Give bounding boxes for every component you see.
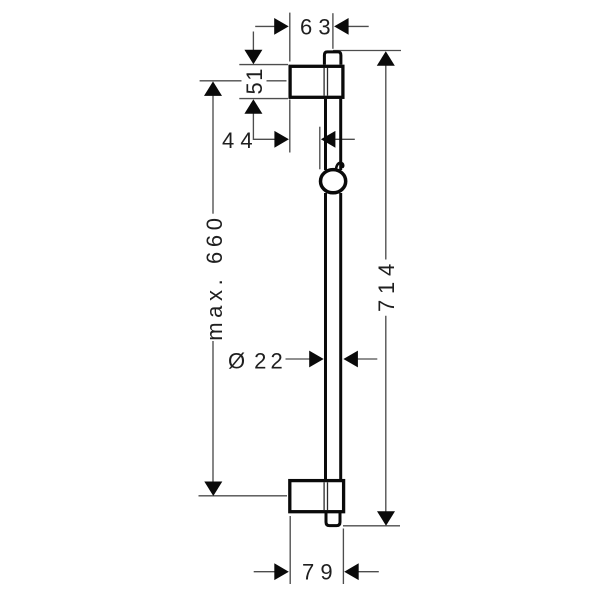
dia22 left arrow (points right) <box>309 351 324 368</box>
top pin/cap of rod <box>324 52 341 65</box>
thin extension / dimension lines <box>199 13 402 584</box>
714 dim: lower line segment <box>385 316 387 513</box>
slider ring <box>321 170 346 193</box>
max 660 dim: upper line segment <box>212 96 214 214</box>
slider release tab <box>336 163 343 170</box>
44 right arrow (points left) <box>321 131 336 148</box>
svg-text:max. 660: max. 660 <box>202 213 227 340</box>
51 dim: top extension line <box>239 64 288 66</box>
max 660 top arrow (points up) <box>204 81 222 96</box>
63 dim: right extension line <box>332 13 334 49</box>
max 660 dim: bottom extension line <box>199 495 288 497</box>
max 660 dim: lower line segment <box>212 341 214 483</box>
44 left arrow (points right) <box>274 131 289 148</box>
63 right arrow (points left) <box>334 18 349 35</box>
51 dim: bottom extension line <box>239 98 288 100</box>
44 dim: left extension line (below bracket) <box>289 100 291 153</box>
714 top arrow (points up) <box>377 51 395 65</box>
rod edge lines inside bottom bracket <box>323 482 325 510</box>
product: shower bar <box>290 52 346 526</box>
79 dim: left extension line <box>289 516 291 584</box>
bottom pin of rod <box>326 512 340 526</box>
63 dim: right tail <box>347 25 369 27</box>
rod edge lines inside top bracket <box>323 68 325 96</box>
dia 22 dim: left tail <box>286 358 312 360</box>
svg-text:4 4: 4 4 <box>222 128 253 153</box>
79 dim: right extension line <box>342 529 344 585</box>
51 top arrow (points down) <box>244 50 262 65</box>
bottom wall bracket <box>290 481 344 512</box>
79 dim: left tail <box>254 571 276 573</box>
714 dim: bottom extension line <box>343 525 400 527</box>
svg-text:6 3: 6 3 <box>300 14 331 39</box>
dimension texts <box>202 14 399 584</box>
51 dim: line above top arrow <box>252 32 254 52</box>
dia22 right arrow (points left) <box>343 351 358 368</box>
svg-text:7 9: 7 9 <box>302 560 333 585</box>
max 660 dim: top extension line (split by 51 text) <box>200 80 242 82</box>
svg-text:22: 22 <box>254 348 287 373</box>
44 dim: right extension line <box>319 127 321 170</box>
63 dim: left extension line <box>289 13 291 62</box>
svg-text:714: 714 <box>374 258 399 312</box>
714 bottom arrow (points down) <box>377 511 395 526</box>
63 left arrow (points right) <box>274 18 289 35</box>
51/44 dim: line below bottom arrow down to 44 level <box>253 113 276 139</box>
714 dim: upper line segment <box>385 65 387 260</box>
51 bottom arrow (points up) <box>244 99 262 114</box>
79 right arrow (points left) <box>344 563 359 580</box>
max 660 bottom arrow (points down) <box>204 482 222 497</box>
arrowheads <box>204 18 395 580</box>
44 dim: right segment with tail over rod <box>334 138 355 140</box>
svg-text:51: 51 <box>242 67 267 94</box>
79 left arrow (points right) <box>274 563 289 580</box>
rod lower segment (slider to bottom bracket) <box>324 193 327 481</box>
top wall bracket <box>290 66 343 97</box>
svg-text:Ø: Ø <box>228 348 245 373</box>
63 dim: left tail <box>255 25 276 27</box>
dia 22 dim: right tail <box>356 358 378 360</box>
79 dim: right tail <box>357 571 379 573</box>
714 dim: top extension line <box>333 50 401 52</box>
rod upper segment (bracket to slider) <box>324 99 327 170</box>
